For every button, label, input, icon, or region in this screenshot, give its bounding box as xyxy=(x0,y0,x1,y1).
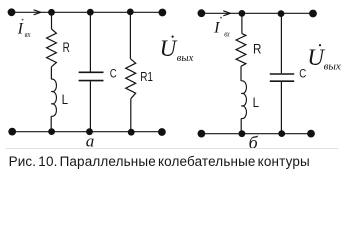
svg-text:вх: вх xyxy=(25,30,31,39)
wire: right circuit top rail xyxy=(201,12,313,14)
inductor L (right circuit coil) xyxy=(241,81,246,119)
node: left circuit top-right output terminal xyxy=(159,9,167,17)
capacitor C bottom plate (right circuit) xyxy=(270,80,294,82)
capacitor C top plate (right circuit) xyxy=(270,73,294,75)
wire: R to L link (left circuit) xyxy=(50,67,52,79)
junction: top of R-L branch (right circuit) xyxy=(239,10,246,17)
svg-text:I: I xyxy=(17,20,24,37)
node: right circuit bottom-left terminal xyxy=(198,130,206,138)
svg-text:вых: вых xyxy=(177,52,194,64)
svg-text:вх: вх xyxy=(224,30,230,39)
wire: C top lead (right circuit) xyxy=(280,14,282,74)
dot above U (right output voltage label) xyxy=(319,44,321,46)
svg-text:C: C xyxy=(299,68,306,80)
node: left circuit bottom-right terminal xyxy=(158,128,166,136)
node: right circuit top-left input terminal xyxy=(198,9,206,17)
svg-text:R: R xyxy=(63,39,70,55)
svg-text:I: I xyxy=(213,19,220,36)
svg-text:R: R xyxy=(253,41,261,57)
svg-text:Рис. 10. Параллельные колебате: Рис. 10. Параллельные колебательные конт… xyxy=(9,154,310,169)
junction: top of R1 branch xyxy=(127,9,134,16)
junction: bottom of C branch (left circuit) xyxy=(86,128,93,135)
node: right circuit bottom-right terminal xyxy=(307,130,315,138)
dot above I (left input current label) xyxy=(22,19,24,21)
junction: bottom of R-L branch (right circuit) xyxy=(239,130,246,137)
svg-text:а: а xyxy=(86,132,95,151)
node: left circuit bottom-left terminal xyxy=(8,128,16,136)
wire: R1 top lead xyxy=(129,12,131,59)
junction: bottom of R1 branch xyxy=(128,129,135,136)
resistor R (right circuit zigzag) xyxy=(236,34,246,67)
junction: bottom of C branch (right circuit) xyxy=(278,130,285,137)
svg-text:R1: R1 xyxy=(140,69,153,84)
inductor L (left circuit coil) xyxy=(51,79,56,116)
separator rule above caption xyxy=(6,148,338,150)
svg-text:L: L xyxy=(253,94,260,110)
wire: C bottom lead (right circuit) xyxy=(280,82,282,134)
resistor R (left circuit zigzag) xyxy=(47,29,57,67)
junction: top of R branch (left circuit) xyxy=(48,9,55,16)
arrow: input current direction (right circuit) xyxy=(223,11,230,16)
wire: R top lead (right circuit) xyxy=(241,13,243,33)
junction: bottom of R-L branch (left circuit) xyxy=(48,128,55,135)
svg-text:б: б xyxy=(249,133,259,153)
wire: C top lead (left circuit) xyxy=(89,12,91,71)
wire: L bottom lead (right circuit) xyxy=(240,118,242,133)
capacitor C bottom plate (left circuit) xyxy=(79,80,104,82)
wire: R to L link (right circuit) xyxy=(240,66,242,81)
junction: top of C branch (left circuit) xyxy=(87,9,94,16)
svg-text:C: C xyxy=(110,68,117,80)
capacitor C top plate (left circuit) xyxy=(79,71,104,73)
wire: left circuit bottom rail xyxy=(12,131,162,133)
resistor R1 zigzag xyxy=(126,59,136,99)
junction: top of C branch (right circuit) xyxy=(278,10,285,17)
wire: R top lead (left circuit) xyxy=(51,12,53,29)
svg-text:U: U xyxy=(160,36,178,61)
arrow: input current direction (left circuit) xyxy=(34,10,41,15)
wire: R1 bottom lead xyxy=(130,99,132,133)
wire: L bottom lead (left circuit) xyxy=(50,116,52,132)
wire: left circuit top rail xyxy=(12,11,163,13)
wire: right circuit bottom rail xyxy=(201,133,311,135)
node: left circuit top-left input terminal xyxy=(8,8,16,16)
svg-text:L: L xyxy=(62,91,69,107)
dot above U (left output voltage label) xyxy=(172,36,174,38)
node: right circuit top-right output terminal xyxy=(309,10,317,18)
svg-text:вых: вых xyxy=(324,61,341,73)
dot above I (right input current label) xyxy=(220,17,222,19)
wire: C bottom lead (left circuit) xyxy=(89,81,91,131)
